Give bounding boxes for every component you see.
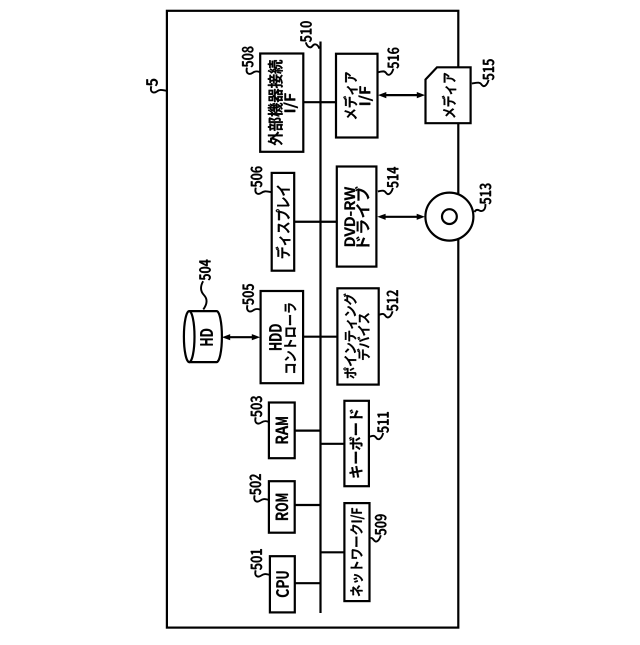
media card 515 <box>426 67 471 123</box>
label 509 <box>375 514 387 535</box>
wire RAM to bus <box>295 430 321 432</box>
diagram rotated 90deg CCW (patent landscape figure) <box>146 11 494 628</box>
label 5 <box>146 79 157 86</box>
wire bus to network I/F <box>321 551 345 553</box>
wire bus to pointing device <box>321 336 338 338</box>
label 502 <box>250 474 262 495</box>
cylinder HD 504 <box>189 311 222 362</box>
wire bus to keyboard <box>321 443 345 445</box>
label 511 <box>378 412 389 433</box>
outer frame (computer 5) <box>167 11 458 628</box>
box RAM 503 <box>269 403 295 459</box>
wire ext device I/F to bus <box>303 101 320 103</box>
box DVD-RW drive 514 <box>337 167 377 267</box>
box HDD controller 505 <box>261 291 304 383</box>
wire bus to media I/F <box>321 101 337 103</box>
label 503 <box>251 396 263 417</box>
wire display to bus <box>294 221 320 223</box>
disc 513 <box>425 193 473 241</box>
label 504 <box>199 260 211 281</box>
label 514 <box>387 167 398 188</box>
label 506 <box>251 167 263 188</box>
label 513 <box>480 184 492 205</box>
box keyboard 511 <box>344 401 369 486</box>
label 505 <box>242 284 254 305</box>
label 508 <box>242 47 254 68</box>
box pointing device 512 <box>337 288 378 384</box>
wire CPU to bus <box>295 582 321 584</box>
wire HDD controller to bus <box>303 336 320 338</box>
box network I/F 509 <box>344 503 369 601</box>
label 510 <box>300 21 312 42</box>
wire bus to DVD-RW drive <box>321 221 337 223</box>
box CPU 501 <box>270 556 295 612</box>
wire ROM to bus <box>295 504 321 506</box>
label 516 <box>388 48 400 69</box>
box ROM 502 <box>269 481 295 533</box>
label 515 <box>483 59 494 80</box>
label 512 <box>387 290 399 311</box>
box external device connection I/F 508 <box>260 54 303 152</box>
box display 506 <box>272 173 295 271</box>
arrow media I/F to media card <box>382 94 421 96</box>
arrow HD to HDD controller <box>226 336 256 338</box>
label 501 <box>251 549 263 570</box>
box media I/F 516 <box>336 54 378 138</box>
arrow DVD-RW drive to disc <box>381 216 421 218</box>
bus line 510 <box>319 42 321 614</box>
